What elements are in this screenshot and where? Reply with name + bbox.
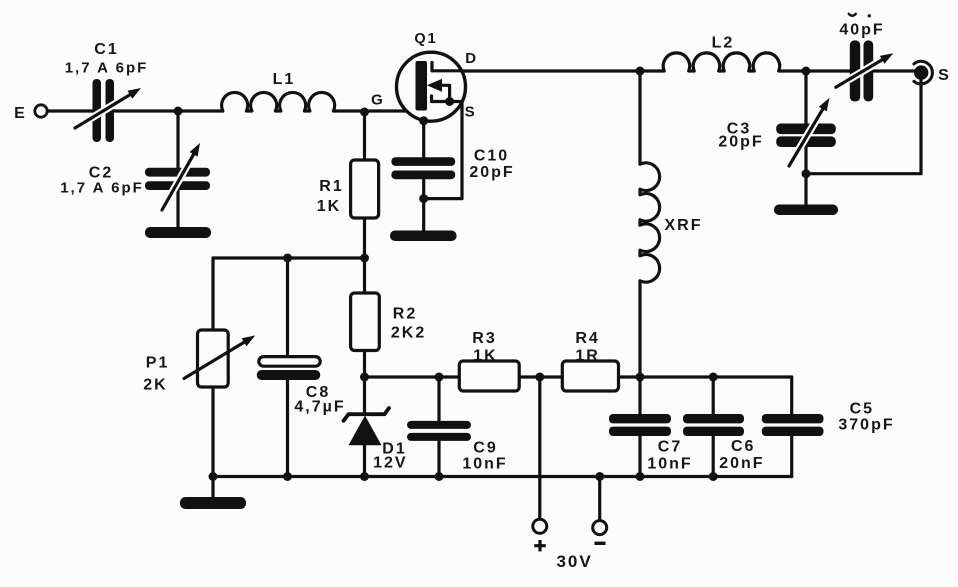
svg-text:30V: 30V (556, 552, 592, 571)
svg-text:2K: 2K (143, 377, 167, 394)
svg-text:L2: L2 (712, 35, 735, 52)
svg-text:1,7 A 6pF: 1,7 A 6pF (60, 180, 144, 197)
svg-text:20nF: 20nF (719, 455, 764, 472)
svg-text:20pF: 20pF (718, 134, 763, 151)
svg-text:C1: C1 (94, 41, 118, 58)
svg-text:R2: R2 (393, 306, 417, 323)
svg-text:Q1: Q1 (414, 31, 437, 47)
svg-text:1K: 1K (473, 348, 497, 365)
svg-text:C6: C6 (731, 438, 755, 455)
svg-text:10nF: 10nF (462, 456, 507, 473)
svg-text:4,7µF: 4,7µF (294, 399, 345, 416)
svg-text:G: G (371, 92, 385, 109)
svg-text:370pF: 370pF (838, 417, 894, 434)
svg-text:C5: C5 (850, 401, 874, 418)
svg-text:20pF: 20pF (469, 164, 514, 181)
svg-text:10nF: 10nF (647, 456, 692, 473)
svg-text:1K: 1K (317, 198, 341, 215)
svg-text:P1: P1 (146, 355, 170, 372)
svg-text:D: D (465, 50, 478, 67)
svg-text:R4: R4 (575, 330, 599, 347)
svg-text:L1: L1 (273, 71, 296, 88)
svg-text:S: S (465, 104, 477, 121)
svg-text:C10: C10 (474, 148, 509, 165)
svg-text:XRF: XRF (665, 217, 703, 234)
svg-text:40pF: 40pF (839, 22, 884, 39)
svg-text:1R: 1R (575, 348, 599, 365)
svg-text:S: S (938, 67, 951, 84)
svg-text:C9: C9 (473, 440, 497, 457)
svg-text:12V: 12V (373, 455, 407, 472)
svg-text:C7: C7 (658, 439, 682, 456)
svg-text:R3: R3 (472, 330, 496, 347)
svg-text:E: E (14, 105, 27, 122)
svg-text:1,7 A 6pF: 1,7 A 6pF (65, 60, 149, 77)
svg-text:2K2: 2K2 (391, 325, 426, 342)
svg-text:R1: R1 (319, 178, 343, 195)
